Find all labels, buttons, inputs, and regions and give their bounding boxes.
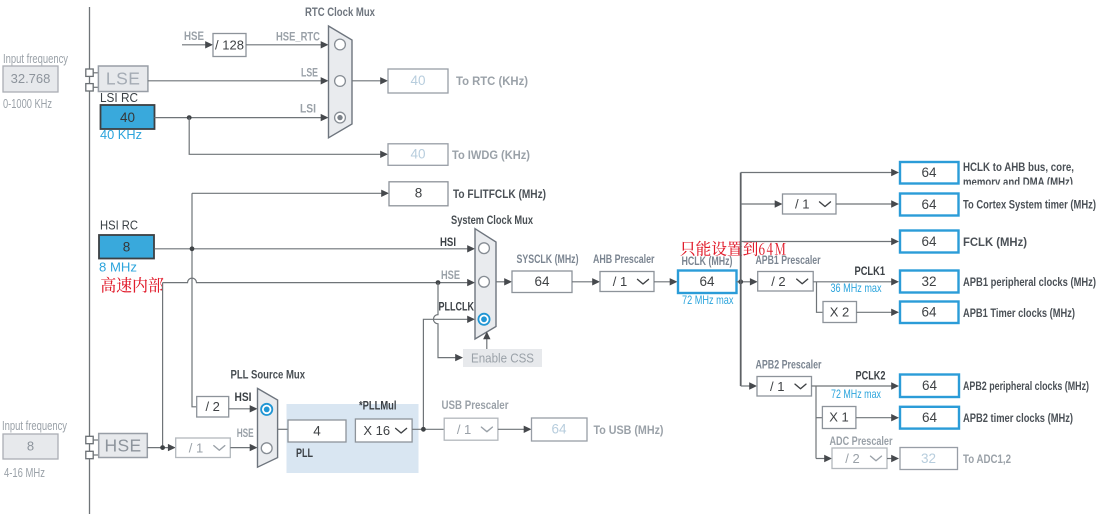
label APB1 peripheral clocks (MHz)	[963, 275, 1096, 289]
svg-text:To RTC (KHz): To RTC (KHz)	[456, 74, 528, 88]
svg-text:LSE: LSE	[301, 68, 318, 80]
label To RTC (KHz)	[456, 74, 528, 88]
svg-text:64: 64	[699, 274, 715, 289]
svg-text:64: 64	[922, 410, 938, 425]
node PLLCLK label	[439, 302, 475, 314]
node HSI label (sysmux)	[440, 237, 456, 249]
svg-text:To IWDG (KHz): To IWDG (KHz)	[452, 148, 530, 162]
svg-text:/ 1: / 1	[457, 422, 471, 437]
svg-text:64: 64	[921, 305, 937, 320]
multiplier X2	[823, 302, 857, 323]
LSE range label 0-1000 KHz	[3, 97, 52, 111]
svg-text:HSI RC: HSI RC	[100, 219, 138, 233]
label PLL	[296, 446, 313, 460]
value box SYSCLK 64	[512, 271, 572, 293]
wire: main left pin bus	[89, 7, 91, 514]
svg-text:HSE: HSE	[441, 270, 460, 282]
label APB2 timer clocks (MHz)	[963, 411, 1073, 425]
svg-text:8: 8	[415, 186, 423, 201]
label SYSCLK (MHz)	[517, 252, 579, 266]
wire: HSI vertical branch	[192, 193, 197, 406]
node HSE label (pll)	[237, 428, 254, 440]
svg-text:/ 2: / 2	[845, 451, 859, 466]
svg-text:LSI RC: LSI RC	[100, 91, 138, 105]
svg-text:HSE: HSE	[105, 436, 142, 456]
svg-text:64: 64	[921, 197, 937, 212]
node: 40 KHz label	[100, 128, 142, 142]
wire: HSI to system mux	[155, 245, 476, 252]
svg-text:4-16 MHz: 4-16 MHz	[4, 466, 45, 480]
wire: X2 to APB1 timer box	[857, 309, 900, 316]
value box PLL input 4	[288, 420, 346, 442]
svg-text:40 KHz: 40 KHz	[100, 128, 142, 142]
svg-text:APB2 timer clocks (MHz): APB2 timer clocks (MHz)	[963, 411, 1073, 425]
divider AHB Prescaler /1	[600, 272, 654, 292]
wire: USB prescaler to USB box	[498, 426, 532, 433]
wire: PLLCLK to system mux	[423, 316, 475, 430]
divider APB1 Prescaler /2	[758, 272, 814, 292]
wire: RTC mux to RTC box	[352, 77, 388, 84]
wire: /2 to PLL mux	[229, 405, 258, 412]
svg-text:FCLK (MHz): FCLK (MHz)	[963, 235, 1027, 249]
label HCLK to AHB bus core memory and DMA	[960, 160, 1095, 193]
wire: HSE to /1 prescaler	[147, 444, 175, 451]
label APB1 Prescaler	[756, 253, 821, 267]
label PCLK1	[855, 266, 886, 278]
wire: system mux to SYSCLK	[496, 278, 512, 285]
pin OSC_OUT	[86, 451, 99, 458]
svg-text:To ADC1,2: To ADC1,2	[963, 452, 1011, 466]
HSE range label 4-16 MHz	[4, 466, 45, 480]
svg-text:To FLITFCLK (MHz): To FLITFCLK (MHz)	[453, 187, 546, 201]
output box APB2 peripheral value 64	[900, 375, 959, 398]
wire: bus to HCLK AHB box	[741, 169, 899, 176]
label APB1 Timer clocks (MHz)	[963, 306, 1075, 320]
svg-text:8 MHz: 8 MHz	[99, 261, 137, 275]
label To ADC1,2	[963, 452, 1011, 466]
output box APB1 peripheral value 32	[900, 271, 959, 293]
svg-text:36 MHz max: 36 MHz max	[831, 281, 882, 295]
label To Cortex System timer (MHz)	[963, 198, 1096, 212]
node HSE label (sysmux)	[441, 270, 460, 282]
svg-text:X 16: X 16	[363, 423, 390, 438]
svg-text:32: 32	[921, 274, 936, 289]
output box To FLITFCLK value 8	[389, 182, 448, 206]
divider /128	[213, 34, 246, 57]
svg-text:/ 128: / 128	[215, 38, 244, 53]
svg-text:/ 1: / 1	[613, 274, 627, 289]
svg-text:X 1: X 1	[829, 410, 849, 425]
svg-text:HSE: HSE	[237, 428, 254, 440]
output box HCLK to AHB value 64	[900, 162, 959, 184]
pin OSC_IN	[86, 436, 99, 443]
label *PLLMul	[359, 401, 397, 413]
label 72 MHz max (APB2)	[831, 387, 881, 401]
label FCLK (MHz)	[963, 235, 1027, 249]
svg-text:*PLLMul: *PLLMul	[359, 401, 397, 413]
mux RTC Clock Mux	[329, 26, 353, 138]
mux PLL Source Mux	[258, 388, 278, 467]
svg-text:LSE: LSE	[106, 69, 141, 89]
svg-text:72 MHz max: 72 MHz max	[831, 387, 881, 401]
label APB2 Prescaler	[756, 358, 822, 372]
node: LSE input frequency label	[3, 52, 69, 66]
svg-text:Enable CSS: Enable CSS	[471, 351, 534, 366]
wire: PLL out to USB prescaler	[412, 428, 444, 430]
output box ADC value 32	[900, 448, 958, 470]
svg-text:4: 4	[313, 424, 321, 439]
block PLL background	[287, 404, 419, 473]
mux System Clock Mux	[475, 229, 496, 339]
junction PLL out	[421, 427, 426, 432]
svg-text:64: 64	[921, 165, 937, 180]
svg-text:USB Prescaler: USB Prescaler	[442, 398, 509, 412]
svg-text:/ 1: / 1	[770, 379, 784, 394]
svg-text:HCLK to AHB bus, core,: HCLK to AHB bus, core,	[963, 160, 1074, 174]
svg-text:40: 40	[120, 110, 135, 125]
divider Cortex /1	[783, 194, 837, 214]
svg-text:40: 40	[410, 73, 425, 88]
svg-text:72 MHz max: 72 MHz max	[682, 293, 734, 307]
svg-text:LSI: LSI	[300, 104, 316, 116]
wire: bus to cortex prescaler	[741, 200, 783, 207]
multiplier X1	[822, 407, 856, 429]
output box To IWDG value 40	[388, 144, 448, 166]
annotation red text 只能设置到64M	[680, 241, 785, 257]
output box To USB value 64	[532, 418, 588, 441]
junction on LSI wire	[187, 115, 192, 120]
label System Clock Mux	[451, 213, 533, 227]
node: HSI RC label	[100, 219, 138, 233]
node: HSE input frequency label	[2, 419, 68, 433]
node: 8 MHz label	[99, 261, 137, 275]
wire: HCLK out	[737, 278, 758, 285]
svg-text:APB2 Prescaler: APB2 Prescaler	[756, 358, 822, 372]
wire: SYSCLK to AHB prescaler	[572, 278, 600, 285]
wire: branch to X1	[816, 417, 822, 419]
divider APB2 Prescaler /1	[757, 377, 812, 397]
svg-text:HCLK (MHz): HCLK (MHz)	[682, 254, 733, 268]
label PCLK2	[856, 371, 886, 383]
svg-text:AHB Prescaler: AHB Prescaler	[593, 252, 655, 266]
wire: cortex prescaler to box	[836, 200, 899, 207]
node LSI label	[300, 104, 316, 116]
wire: bus to FCLK box	[741, 238, 899, 245]
wire: HSE vertical riser	[162, 283, 164, 448]
oscillator LSE	[98, 66, 147, 92]
svg-text:HSE: HSE	[184, 31, 204, 43]
wire: HCLK vertical bus	[740, 173, 742, 387]
svg-text:64: 64	[551, 422, 567, 437]
svg-text:8: 8	[27, 439, 34, 454]
junction on HSE wire (pll)	[160, 445, 165, 450]
wire: APB2 prescaler to box	[812, 382, 900, 389]
junction on HSI wire	[190, 246, 195, 251]
svg-text:To USB (MHz): To USB (MHz)	[594, 423, 664, 437]
wire: LSE to RTC mux	[148, 77, 329, 84]
svg-text:/ 2: / 2	[205, 399, 219, 414]
svg-text:X 2: X 2	[830, 305, 850, 320]
wire: ADC prescaler to box	[887, 455, 899, 462]
oscillator HSE	[99, 434, 148, 458]
wire: CSS branch (hop over PLLCLK)	[433, 283, 463, 362]
svg-text:HSI: HSI	[235, 392, 252, 404]
label 36 MHz max	[831, 281, 882, 295]
divider USB Prescaler /1	[444, 418, 498, 440]
svg-text:APB1 Prescaler: APB1 Prescaler	[756, 253, 821, 267]
svg-text:/ 1: / 1	[795, 197, 809, 212]
wire: LSI to RTC mux	[155, 114, 329, 121]
label APB2 peripheral clocks (MHz)	[963, 379, 1089, 393]
svg-text:PCLK1: PCLK1	[855, 266, 886, 278]
junction on HSE wire for CSS	[436, 280, 441, 285]
svg-text:64: 64	[534, 274, 550, 289]
wire: X1 to APB2 timer box	[856, 414, 899, 421]
label RTC Clock Mux	[305, 5, 375, 19]
output box APB2 timer value 64	[900, 407, 959, 429]
svg-text:Input frequency: Input frequency	[2, 419, 68, 433]
annotation red text 高速内部	[101, 277, 163, 293]
multiplier PLLMul X16	[355, 419, 412, 442]
svg-text:64: 64	[921, 234, 937, 249]
wire: APB1 branch to X2	[817, 282, 824, 313]
wire: HSI to FLITFCLK	[192, 190, 389, 197]
svg-text:HSE_RTC: HSE_RTC	[276, 32, 320, 44]
button Enable CSS	[463, 349, 542, 367]
svg-text:40: 40	[410, 147, 425, 162]
wire: HSE to /128	[182, 41, 213, 48]
svg-text:Input frequency: Input frequency	[3, 52, 69, 66]
svg-text:APB1 Timer clocks (MHz): APB1 Timer clocks (MHz)	[963, 306, 1075, 320]
svg-text:APB2 peripheral clocks (MHz): APB2 peripheral clocks (MHz)	[963, 379, 1089, 393]
svg-text:HSI: HSI	[440, 237, 456, 249]
divider PLL HSE /1	[176, 438, 231, 458]
wire: Enable CSS up arrow	[483, 332, 490, 350]
wire: APB1 prescaler to box	[813, 278, 899, 285]
node: LSI RC label	[100, 91, 138, 105]
svg-text:PLLCLK: PLLCLK	[439, 302, 475, 314]
oscillator HSI RC 8	[99, 235, 154, 259]
LSE input frequency box 32.768	[3, 66, 58, 92]
wire: AHB to HCLK	[654, 278, 678, 285]
svg-text:32: 32	[921, 451, 936, 466]
svg-text:SYSCLK (MHz): SYSCLK (MHz)	[517, 252, 579, 266]
node LSE label	[301, 68, 318, 80]
node HSE label (top)	[184, 31, 204, 43]
wire: PLL mux to PLLMul input	[278, 428, 288, 430]
svg-text:RTC Clock Mux: RTC Clock Mux	[305, 5, 375, 19]
oscillator LSI RC 40	[101, 105, 155, 129]
label To FLITFCLK (MHz)	[453, 187, 546, 201]
wire: LSI branch to IWDG	[189, 118, 388, 158]
node HSE_RTC label	[276, 32, 320, 44]
label AHB Prescaler	[593, 252, 655, 266]
svg-text:/ 2: / 2	[771, 274, 785, 289]
svg-text:64: 64	[922, 378, 938, 393]
wire: branch to ADC prescaler	[816, 455, 832, 462]
output box To RTC value 40	[388, 69, 448, 93]
wire: HSE to system mux (hop over HSI branch)	[163, 278, 475, 286]
junction HCLK distribution	[738, 279, 743, 284]
pin OSC32_OUT	[86, 84, 99, 91]
svg-text:ADC Prescaler: ADC Prescaler	[830, 434, 893, 448]
output box FCLK value 64	[900, 231, 959, 253]
value box HCLK 64	[678, 271, 737, 294]
pin OSC32_IN	[86, 69, 99, 76]
node HSI label (pll)	[235, 392, 252, 404]
output box Cortex timer value 64	[900, 194, 959, 216]
svg-text:8: 8	[123, 240, 131, 255]
svg-text:PLL: PLL	[296, 446, 313, 460]
svg-text:/ 1: / 1	[189, 440, 203, 455]
output box APB1 timer value 64	[900, 302, 959, 324]
label ADC Prescaler	[830, 434, 893, 448]
svg-text:System Clock Mux: System Clock Mux	[451, 213, 533, 227]
label 72 MHz max (HCLK)	[682, 293, 734, 307]
divider PLL HSI /2	[197, 397, 229, 418]
divider ADC Prescaler /2	[832, 448, 887, 469]
wire: /1 to PLL mux	[230, 444, 257, 451]
label USB Prescaler	[442, 398, 509, 412]
svg-text:PCLK2: PCLK2	[856, 371, 886, 383]
wire: APB2 branch vertical	[815, 386, 817, 459]
label To IWDG (KHz)	[452, 148, 530, 162]
label PLL Source Mux	[231, 368, 306, 382]
HSE input frequency box 8	[3, 434, 58, 459]
label To USB (MHz)	[594, 423, 664, 437]
wire: /128 to RTC mux	[246, 41, 329, 48]
svg-text:0-1000 KHz: 0-1000 KHz	[3, 97, 52, 111]
svg-text:APB1 peripheral clocks (MHz): APB1 peripheral clocks (MHz)	[963, 275, 1096, 289]
svg-text:32.768: 32.768	[11, 71, 51, 86]
label HCLK (MHz)	[682, 254, 733, 268]
wire: bus to APB2 prescaler	[741, 382, 757, 389]
svg-text:PLL Source Mux: PLL Source Mux	[231, 368, 306, 382]
svg-text:To Cortex System timer (MHz): To Cortex System timer (MHz)	[963, 198, 1096, 212]
